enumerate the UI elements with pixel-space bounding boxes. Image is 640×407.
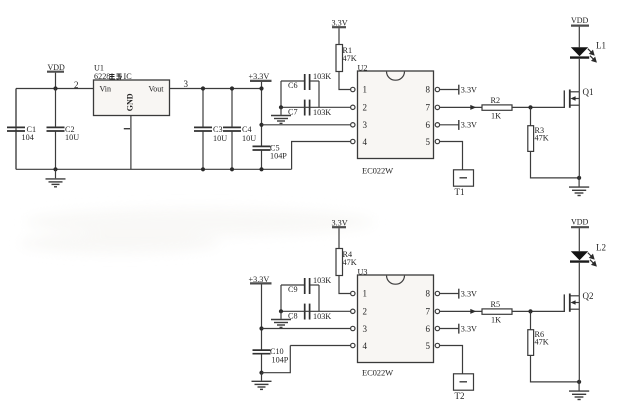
pin 2 circle (U3): [351, 309, 355, 313]
svg-text:C4: C4: [242, 125, 252, 134]
wire: ground link to pin4 drop (bottom): [262, 346, 291, 373]
U1 GND pin dash mark: [124, 128, 130, 130]
wire: LED cathode to Q2 drain: [578, 263, 580, 296]
svg-text:103K: 103K: [313, 108, 331, 117]
svg-text:C3: C3: [213, 125, 223, 134]
svg-text:R5: R5: [491, 300, 501, 309]
capacitor C9: [281, 276, 331, 294]
svg-text:104P: 104P: [270, 152, 287, 161]
label 6228 regulator IC (CJK drawn as strokes): [94, 72, 132, 81]
ground (Q1 source): [569, 178, 589, 196]
svg-text:EC022W: EC022W: [362, 368, 393, 378]
power +3.3V (top): [249, 72, 272, 81]
svg-text:104P: 104P: [272, 356, 289, 365]
svg-text:L2: L2: [596, 243, 606, 253]
node: Q2 source/ground junction: [577, 380, 581, 384]
svg-text:6: 6: [426, 120, 431, 130]
node: R5/R6 junction: [528, 309, 532, 313]
net 3.3V at pin 8: [440, 85, 477, 95]
LED L2 emission arrows: [588, 253, 596, 266]
pin 3 circle (U3): [351, 326, 355, 330]
crystal T2: [454, 374, 474, 401]
pin 4 circle (U3): [351, 343, 355, 347]
svg-text:6228: 6228: [94, 72, 110, 81]
pin 5 circle (U3): [435, 343, 439, 347]
svg-text:1K: 1K: [491, 112, 501, 121]
wire: 3.3V column: [261, 82, 263, 147]
net 3.3V at pin 8 (U3): [440, 289, 477, 299]
svg-text:R2: R2: [491, 96, 501, 105]
power 3.3V (R1 top): [332, 19, 348, 45]
svg-text:Vout: Vout: [149, 85, 165, 94]
svg-text:3.3V: 3.3V: [461, 121, 477, 130]
resistor R5: [482, 300, 512, 325]
wire: bottom ground rail: [16, 168, 292, 170]
wire: C9/C8 left leg: [280, 285, 282, 311]
transistor Q1 (NMOS): [564, 87, 593, 178]
pin 7 circle: [435, 105, 439, 109]
svg-text:10U: 10U: [65, 133, 79, 142]
pin 1 circle (U3): [351, 291, 355, 295]
svg-text:4: 4: [363, 341, 368, 351]
pin 4 circle: [351, 139, 355, 143]
ground (left rail): [46, 169, 66, 187]
ground (under C10): [252, 373, 272, 390]
svg-text:10U: 10U: [213, 134, 227, 143]
pin 6 circle (U3): [435, 326, 439, 330]
svg-text:47K: 47K: [535, 134, 549, 143]
wire: pin 7 to R5: [440, 310, 482, 312]
resistor R2: [482, 96, 512, 121]
svg-text:3: 3: [363, 120, 368, 130]
svg-text:VDD: VDD: [571, 218, 589, 227]
node: pin3 tap: [259, 123, 263, 127]
wire: 3.3V column (bottom): [261, 284, 263, 350]
svg-text:IC: IC: [124, 72, 133, 81]
wire: C6/C7 right leg: [318, 81, 320, 107]
power VDD (right bottom): [571, 218, 589, 252]
resistor R4: [336, 249, 357, 276]
LED L1 emission arrows: [588, 49, 596, 62]
svg-text:1: 1: [363, 289, 368, 299]
wire: junction down to R6: [530, 311, 532, 329]
svg-text:U2: U2: [358, 64, 368, 73]
svg-text:3: 3: [363, 324, 368, 334]
arrow on pin7 wire (bottom): [470, 309, 476, 314]
capacitor C8: [288, 304, 331, 321]
wire: pin2 wire (bottom): [281, 310, 351, 312]
capacitor C6: [281, 72, 331, 90]
svg-text:7: 7: [426, 102, 431, 112]
svg-text:7: 7: [426, 306, 431, 316]
node: R2/R3 junction: [528, 105, 532, 109]
pin 8 circle: [435, 87, 439, 91]
wire: C9/C8 right leg: [318, 285, 320, 311]
wire: R6 bottom to ground node: [531, 355, 580, 382]
wire: left edge vertical: [15, 89, 17, 170]
svg-text:2: 2: [363, 102, 368, 112]
svg-text:EC022W: EC022W: [362, 166, 393, 176]
svg-text:8: 8: [426, 85, 431, 95]
capacitor C7: [288, 100, 331, 117]
svg-text:104: 104: [22, 133, 34, 142]
capacitor C1: [7, 89, 36, 170]
svg-text:Vin: Vin: [100, 85, 112, 94]
node: C2/ground rail junction: [53, 167, 57, 171]
crystal T1: [454, 170, 474, 197]
wire: pin 7 to R2: [440, 106, 482, 108]
svg-text:103K: 103K: [313, 312, 331, 321]
pin 1 circle: [351, 87, 355, 91]
node: source/ground junction: [577, 176, 581, 180]
node: VDD/top-rail junction: [53, 86, 57, 90]
svg-text:5: 5: [426, 137, 431, 147]
power 3.3V (R4 top): [332, 219, 348, 249]
svg-text:3: 3: [184, 79, 189, 89]
svg-text:47K: 47K: [343, 54, 357, 63]
node: C9/C8 ground junction: [279, 309, 283, 313]
wire: junction down to R3: [530, 107, 532, 125]
LED L1: [570, 41, 606, 58]
U1 GND pin wire: [130, 116, 132, 170]
power VDD (right top): [571, 16, 589, 47]
wire: pin2 wire: [281, 106, 351, 108]
wire: C6/C7 left leg: [280, 81, 282, 107]
wire: R3 bottom to ground node: [531, 151, 580, 178]
svg-text:1K: 1K: [491, 316, 501, 325]
svg-text:47K: 47K: [343, 258, 357, 267]
wire: R2 to Q1 gate: [512, 106, 564, 108]
wire: R5 to Q2 gate: [512, 310, 564, 312]
IC U2: [358, 64, 434, 176]
resistor R1: [336, 45, 357, 72]
svg-text:Q1: Q1: [583, 87, 594, 97]
wire: top rail from left edge to U1 Vin: [16, 88, 94, 90]
IC U3: [358, 268, 434, 378]
svg-text:Q2: Q2: [583, 291, 594, 301]
node: rail/3.3V column: [259, 86, 263, 90]
pin 6 circle: [435, 123, 439, 127]
svg-text:U3: U3: [358, 268, 368, 277]
arrow on pin7 wire: [470, 105, 476, 110]
regulator U1: [94, 64, 170, 116]
wire: pin 5 to T2: [440, 346, 463, 374]
svg-text:GND: GND: [126, 93, 135, 111]
capacitor C2: [47, 89, 80, 170]
pin 5 circle: [435, 139, 439, 143]
wire: U1 Vout to +3.3V rail: [170, 88, 262, 90]
svg-text:103K: 103K: [313, 276, 331, 285]
capacitor C10: [253, 347, 289, 373]
power VDD (left): [47, 63, 65, 89]
svg-text:3.3V: 3.3V: [461, 85, 477, 94]
svg-text:47K: 47K: [535, 338, 549, 347]
svg-text:6: 6: [426, 324, 431, 334]
net 3.3V at pin 6 (U3): [440, 324, 477, 334]
resistor R6: [528, 330, 549, 356]
svg-text:+3.3V: +3.3V: [249, 72, 270, 81]
wire: pin 5 to T1: [440, 142, 463, 170]
svg-text:C9: C9: [288, 285, 298, 294]
capacitor C5: [253, 144, 288, 172]
wire: R4 to pin1: [339, 276, 351, 294]
capacitor C4: [223, 86, 256, 171]
svg-text:8: 8: [426, 289, 431, 299]
svg-text:VDD: VDD: [571, 16, 589, 25]
svg-text:10U: 10U: [242, 134, 256, 143]
svg-text:T2: T2: [455, 391, 465, 401]
pin 2 circle: [351, 105, 355, 109]
svg-text:2: 2: [363, 306, 368, 316]
svg-text:2: 2: [74, 80, 79, 90]
resistor R3: [528, 126, 549, 152]
LED L2: [570, 243, 606, 262]
svg-text:L1: L1: [596, 41, 606, 51]
svg-text:3.3V: 3.3V: [461, 324, 477, 333]
svg-text:4: 4: [363, 137, 368, 147]
wire: pin4 wire (bottom): [290, 345, 350, 347]
svg-text:C6: C6: [288, 81, 298, 90]
wire: pin3 wire: [262, 124, 351, 126]
node: C6/C7 ground junction: [279, 105, 283, 109]
pin 3 circle: [351, 123, 355, 127]
net 3.3V at pin 6: [440, 120, 477, 130]
svg-text:3.3V: 3.3V: [461, 289, 477, 298]
wire: pin3 wire (bottom): [262, 328, 351, 330]
ground (under C9/C8): [271, 311, 291, 327]
ground (Q2 source): [569, 382, 589, 400]
svg-text:1: 1: [363, 85, 368, 95]
node: pin3 tap (bottom): [259, 326, 263, 330]
power +3.3V (bottom): [249, 275, 272, 284]
transistor Q2 (NMOS): [564, 291, 593, 382]
wire: R1 to pin1: [339, 72, 351, 90]
svg-text:103K: 103K: [313, 72, 331, 81]
pin 7 circle (U3): [435, 309, 439, 313]
capacitor C3: [194, 86, 227, 171]
pin 8 circle (U3): [435, 291, 439, 295]
svg-text:T1: T1: [455, 187, 465, 197]
wire: LED cathode to Q1 drain: [578, 59, 580, 92]
node: C10 ground junction: [259, 371, 263, 375]
ground (under C6/C7): [271, 107, 291, 123]
wire: pin4 wire with drop to ground rail: [292, 142, 351, 170]
svg-text:5: 5: [426, 341, 431, 351]
